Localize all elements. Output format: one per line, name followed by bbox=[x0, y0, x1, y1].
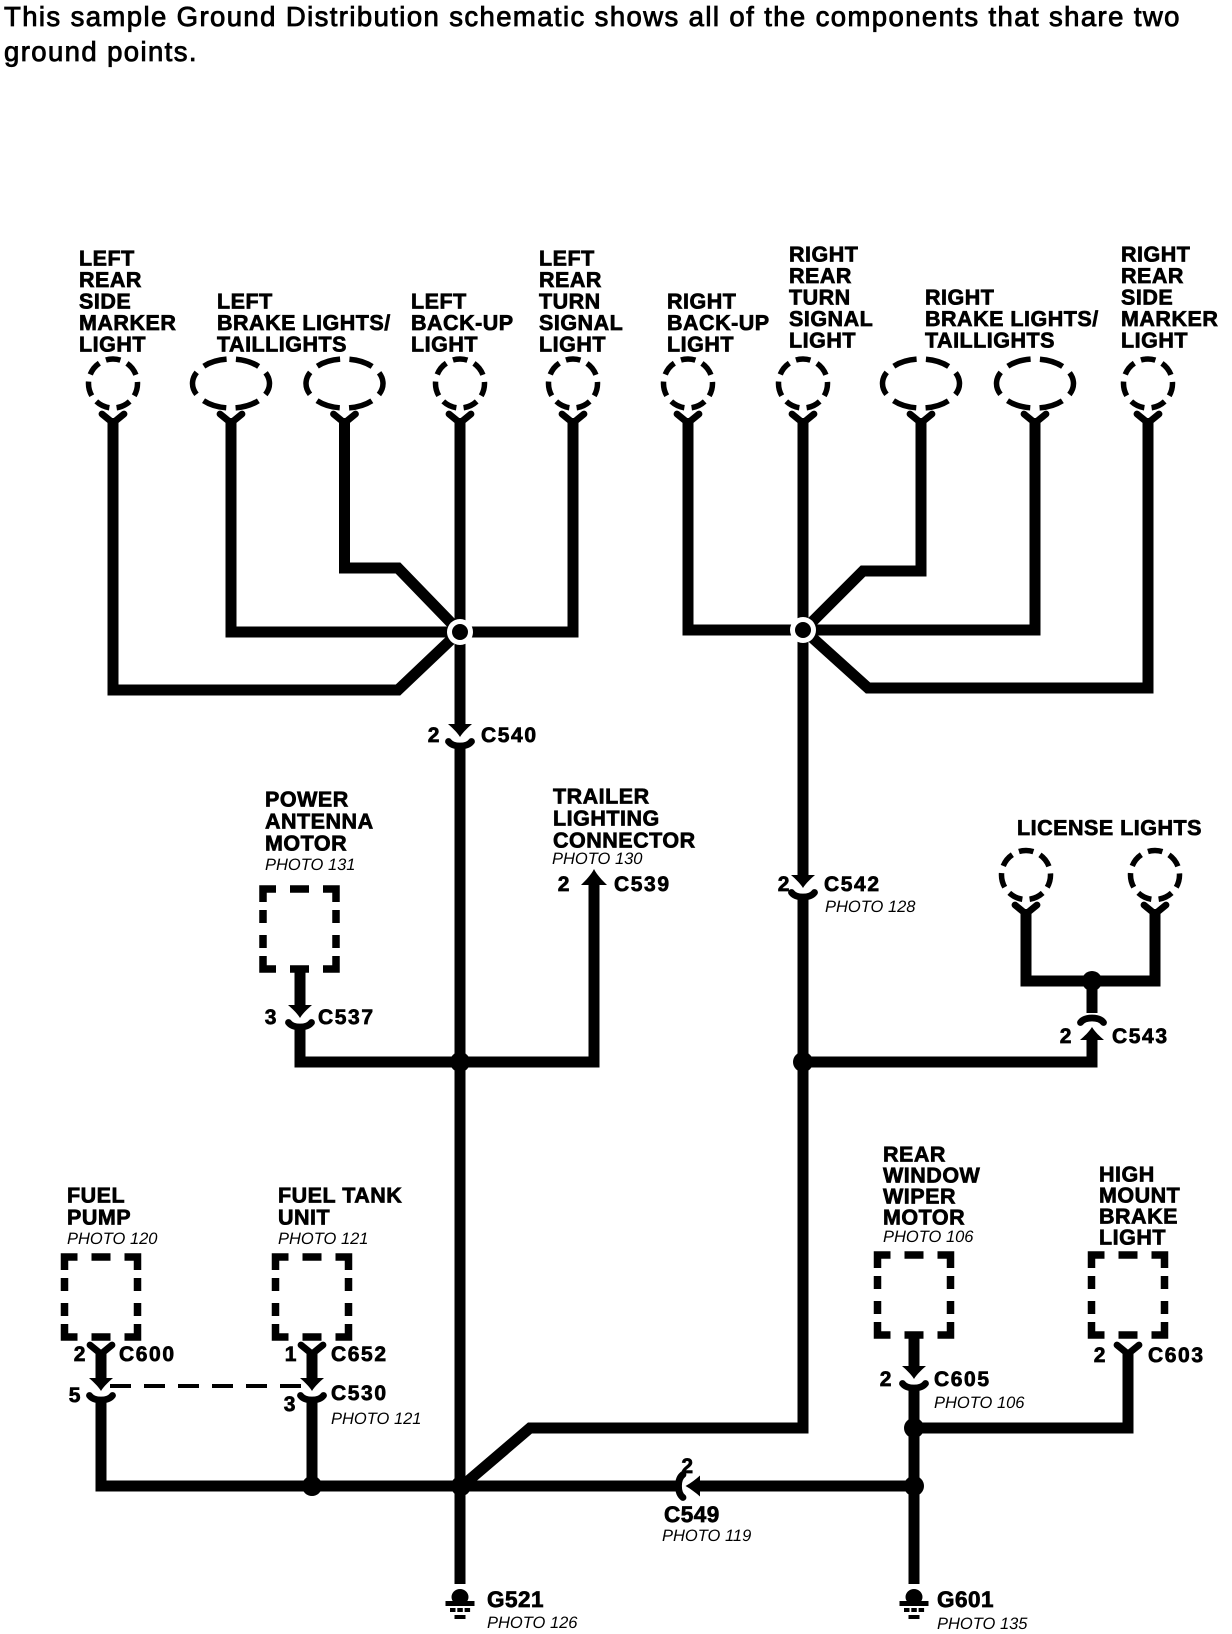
svg-text:LIGHT: LIGHT bbox=[411, 333, 478, 357]
svg-text:BRAKE LIGHTS/: BRAKE LIGHTS/ bbox=[925, 307, 1099, 331]
lamp right rear side marker light bbox=[1124, 359, 1173, 408]
svg-text:C539: C539 bbox=[614, 873, 671, 896]
svg-text:C543: C543 bbox=[1112, 1025, 1169, 1048]
lamp right brake light/taillight 2 bbox=[997, 359, 1074, 408]
fuel pump box bbox=[65, 1257, 138, 1337]
lamp left rear side marker light bbox=[89, 359, 138, 408]
connector C537 symbol bbox=[288, 1005, 312, 1027]
wire power antenna motor to connector C537 bbox=[295, 967, 306, 1006]
svg-text:TURN: TURN bbox=[789, 286, 851, 310]
connector cup at left back-up lamp bbox=[449, 414, 471, 423]
connector C539 arrow symbol bbox=[581, 869, 607, 885]
lamp right rear turn signal light bbox=[779, 359, 828, 408]
svg-text:REAR: REAR bbox=[789, 264, 852, 288]
svg-text:C542: C542 bbox=[824, 873, 881, 896]
rear window wiper motor box bbox=[878, 1255, 951, 1335]
svg-text:PHOTO 135: PHOTO 135 bbox=[937, 1615, 1028, 1633]
connector C603 cup symbol bbox=[1117, 1345, 1139, 1354]
connector cup at left turn signal lamp bbox=[562, 414, 584, 423]
svg-text:RIGHT: RIGHT bbox=[789, 243, 858, 267]
connector cup at right brake/taillight 2 lamp bbox=[1024, 414, 1046, 423]
connector C542 symbol bbox=[791, 875, 815, 897]
connector cup at right license light bbox=[1144, 905, 1166, 914]
junction node license lights bbox=[1082, 971, 1102, 991]
svg-text:2: 2 bbox=[1060, 1025, 1073, 1048]
svg-text:FUEL: FUEL bbox=[67, 1184, 125, 1208]
svg-text:3: 3 bbox=[265, 1006, 278, 1029]
wire right brake/taillight 1 to right junction bbox=[806, 418, 921, 628]
wire pin 5 connector down to bottom bus bbox=[101, 1398, 676, 1486]
lamp right back-up light bbox=[664, 359, 713, 408]
svg-text:SIDE: SIDE bbox=[1121, 286, 1173, 310]
svg-text:C605: C605 bbox=[934, 1368, 991, 1391]
svg-text:LEFT: LEFT bbox=[79, 247, 135, 271]
svg-text:2: 2 bbox=[74, 1343, 87, 1366]
wire C543 down to right main junction bbox=[810, 1039, 1092, 1062]
ground G601 symbol bbox=[900, 1589, 929, 1619]
svg-text:2: 2 bbox=[681, 1455, 694, 1478]
wire left side marker to left junction bbox=[113, 418, 458, 690]
svg-text:POWER: POWER bbox=[265, 788, 349, 812]
connector C530 symbol bbox=[300, 1378, 324, 1400]
svg-text:2: 2 bbox=[1094, 1344, 1107, 1367]
svg-text:FUEL TANK: FUEL TANK bbox=[278, 1184, 402, 1208]
connector cup at left brake/taillight 2 lamp bbox=[334, 414, 356, 423]
svg-text:2: 2 bbox=[428, 724, 441, 747]
svg-text:PHOTO 121: PHOTO 121 bbox=[331, 1410, 421, 1428]
wire bus from C549 to rear wiper column bbox=[699, 1481, 914, 1492]
svg-text:PHOTO 121: PHOTO 121 bbox=[278, 1230, 368, 1248]
svg-text:SIGNAL: SIGNAL bbox=[789, 307, 873, 331]
svg-text:TRAILER: TRAILER bbox=[553, 785, 650, 809]
svg-text:LICENSE LIGHTS: LICENSE LIGHTS bbox=[1017, 816, 1202, 840]
svg-text:REAR: REAR bbox=[1121, 264, 1184, 288]
connector cup at right back-up lamp bbox=[677, 414, 699, 423]
svg-text:PHOTO 106: PHOTO 106 bbox=[934, 1394, 1025, 1412]
junction node wiper at y1428 bbox=[904, 1418, 924, 1438]
power antenna motor box bbox=[263, 889, 336, 969]
svg-text:C549: C549 bbox=[664, 1502, 720, 1527]
svg-text:MARKER: MARKER bbox=[1121, 307, 1218, 331]
svg-text:SIGNAL: SIGNAL bbox=[539, 311, 623, 335]
junction node left main at bus bbox=[451, 1476, 471, 1496]
svg-text:LIGHT: LIGHT bbox=[667, 333, 734, 357]
lamp left back-up light bbox=[436, 359, 485, 408]
lamp left brake light/taillight 1 bbox=[193, 359, 270, 408]
svg-text:MOTOR: MOTOR bbox=[883, 1206, 965, 1230]
svg-text:LIGHT: LIGHT bbox=[789, 329, 856, 353]
svg-text:PUMP: PUMP bbox=[67, 1206, 131, 1230]
svg-text:BACK-UP: BACK-UP bbox=[667, 311, 770, 335]
wire trailer lighting connector to left main junction bbox=[465, 882, 594, 1062]
svg-text:REAR: REAR bbox=[539, 268, 602, 292]
wire right brake/taillight 2 to right junction bbox=[812, 418, 1035, 630]
connector cup at left license light bbox=[1015, 905, 1037, 914]
svg-text:BRAKE LIGHTS/: BRAKE LIGHTS/ bbox=[217, 311, 391, 335]
wire wiper motor to connector C605 bbox=[909, 1333, 920, 1367]
wire right side marker to right junction bbox=[806, 418, 1148, 688]
svg-text:LIGHT: LIGHT bbox=[1121, 329, 1188, 353]
wire left license light to join node bbox=[1026, 909, 1085, 981]
connector C549 symbol bbox=[679, 1475, 701, 1498]
wire left turn signal to left junction bbox=[470, 418, 573, 632]
svg-text:PHOTO 130: PHOTO 130 bbox=[552, 850, 643, 868]
wire left back-up light down through left junction to connector C540 bbox=[455, 418, 466, 725]
junction node left main at y1062 bbox=[450, 1052, 470, 1072]
high mount brake light box bbox=[1092, 1255, 1165, 1335]
wire C603 down and left to wiper column bbox=[920, 1350, 1128, 1428]
lamp license light left bbox=[1002, 851, 1051, 900]
svg-text:RIGHT: RIGHT bbox=[925, 286, 994, 310]
svg-text:LEFT: LEFT bbox=[539, 247, 595, 271]
svg-text:LIGHT: LIGHT bbox=[1099, 1226, 1166, 1250]
wire C605 down through nodes to ground G601 bbox=[909, 1386, 920, 1584]
wire right license light to join node bbox=[1099, 909, 1155, 981]
svg-text:5: 5 bbox=[69, 1384, 82, 1407]
svg-text:PHOTO 119: PHOTO 119 bbox=[662, 1527, 751, 1545]
ground G521 symbol bbox=[446, 1589, 475, 1619]
lamp license light right bbox=[1131, 851, 1180, 900]
svg-text:C652: C652 bbox=[331, 1343, 388, 1366]
wire C540 down to bottom bus and ground G521 bbox=[455, 744, 466, 1584]
wire right back-up to right junction bbox=[688, 418, 795, 630]
svg-text:3: 3 bbox=[284, 1393, 297, 1416]
svg-text:C537: C537 bbox=[318, 1006, 375, 1029]
svg-text:RIGHT: RIGHT bbox=[667, 290, 736, 314]
wire C530 down to bottom bus bbox=[307, 1398, 318, 1486]
svg-text:This sample Ground Distributio: This sample Ground Distribution schemati… bbox=[4, 1, 1181, 32]
svg-text:CONNECTOR: CONNECTOR bbox=[553, 829, 696, 853]
svg-text:BACK-UP: BACK-UP bbox=[411, 311, 514, 335]
svg-text:PHOTO 106: PHOTO 106 bbox=[883, 1228, 974, 1246]
connector C543 symbol bbox=[1080, 1018, 1104, 1040]
fuel tank unit box bbox=[276, 1257, 349, 1337]
svg-text:1: 1 bbox=[285, 1343, 298, 1366]
svg-text:G601: G601 bbox=[937, 1587, 994, 1612]
svg-text:ANTENNA: ANTENNA bbox=[265, 810, 374, 834]
svg-text:RIGHT: RIGHT bbox=[1121, 243, 1190, 267]
svg-text:LEFT: LEFT bbox=[217, 290, 273, 314]
svg-text:2: 2 bbox=[778, 873, 791, 896]
svg-text:REAR: REAR bbox=[79, 268, 142, 292]
svg-text:2: 2 bbox=[880, 1368, 893, 1391]
svg-text:C540: C540 bbox=[481, 724, 538, 747]
lamp left rear turn signal light bbox=[549, 359, 598, 408]
wire C537 to left main junction bbox=[300, 1025, 455, 1062]
svg-text:SIDE: SIDE bbox=[79, 290, 131, 314]
svg-text:LIGHTING: LIGHTING bbox=[553, 807, 660, 831]
connector C652 cup symbol bbox=[301, 1345, 323, 1354]
svg-text:LIGHT: LIGHT bbox=[79, 333, 146, 357]
connector cup at right turn signal lamp bbox=[792, 414, 814, 423]
connector C605 symbol bbox=[902, 1366, 926, 1388]
lamp left brake light/taillight 2 bbox=[306, 359, 383, 408]
svg-text:G521: G521 bbox=[487, 1587, 544, 1612]
svg-text:C603: C603 bbox=[1148, 1344, 1205, 1367]
junction node wiper at bus bbox=[904, 1476, 924, 1496]
svg-text:TURN: TURN bbox=[539, 290, 601, 314]
svg-text:MOTOR: MOTOR bbox=[265, 832, 347, 856]
wire right turn signal down through right junction to connector C542 bbox=[798, 418, 809, 876]
wire C600 down to pin 5 connector bbox=[96, 1350, 107, 1379]
connector cup at right rear side marker lamp bbox=[1137, 414, 1159, 423]
junction node fuel tank at bus bbox=[302, 1476, 322, 1496]
svg-text:TAILLIGHTS: TAILLIGHTS bbox=[217, 333, 347, 357]
dashed link pin5 to pin3 of C530 bbox=[110, 1384, 303, 1388]
svg-text:PHOTO 126: PHOTO 126 bbox=[487, 1614, 578, 1632]
svg-text:LIGHT: LIGHT bbox=[539, 333, 606, 357]
right junction node bbox=[790, 617, 816, 643]
svg-text:PHOTO 128: PHOTO 128 bbox=[825, 898, 916, 916]
wire left brake/taillight 1 to left junction bbox=[231, 418, 450, 632]
left junction node bbox=[447, 619, 473, 645]
connector cup at right brake/taillight 1 lamp bbox=[910, 414, 932, 423]
svg-text:UNIT: UNIT bbox=[278, 1206, 330, 1230]
wire C652 down to connector C530 bbox=[307, 1350, 318, 1379]
svg-text:PHOTO 120: PHOTO 120 bbox=[67, 1230, 158, 1248]
junction node right main at y1062 bbox=[793, 1052, 813, 1072]
wire license lights node down to connector C543 bbox=[1087, 981, 1098, 1013]
connector cup at left rear side marker lamp bbox=[102, 414, 124, 423]
svg-text:ground points.: ground points. bbox=[4, 36, 198, 67]
connector C540 symbol bbox=[448, 724, 472, 746]
svg-text:MARKER: MARKER bbox=[79, 311, 176, 335]
pin 5 inline connector symbol bbox=[89, 1378, 113, 1400]
svg-text:C530: C530 bbox=[331, 1382, 388, 1405]
svg-text:TAILLIGHTS: TAILLIGHTS bbox=[925, 329, 1055, 353]
wire left brake/taillight 2 to left junction bbox=[345, 418, 459, 630]
svg-text:2: 2 bbox=[558, 873, 571, 896]
svg-text:LEFT: LEFT bbox=[411, 290, 467, 314]
svg-text:PHOTO 131: PHOTO 131 bbox=[265, 856, 355, 874]
lamp right brake light/taillight 1 bbox=[883, 359, 960, 408]
connector cup at left brake/taillight 1 lamp bbox=[220, 414, 242, 423]
svg-text:C600: C600 bbox=[119, 1343, 176, 1366]
wire C542 down to junction and lower corner bbox=[461, 895, 803, 1487]
connector C600 cup symbol bbox=[90, 1345, 112, 1354]
